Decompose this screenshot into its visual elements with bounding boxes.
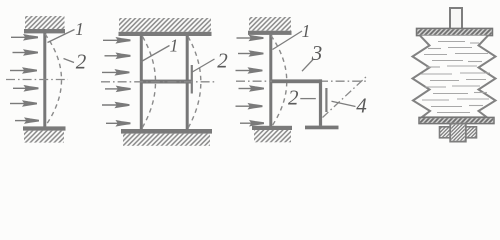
top wall hatching F3 bbox=[249, 17, 291, 31]
leader line to label 2 F1 bbox=[64, 59, 75, 63]
leader line to label 1 F3 bbox=[273, 31, 303, 50]
flow arrow F2 r1 bbox=[103, 38, 130, 43]
flow arrow F1 r6 bbox=[15, 118, 38, 123]
svg-text:3: 3 bbox=[311, 41, 323, 65]
bellows bottom plate bbox=[419, 117, 494, 123]
top wall bar F2 bbox=[119, 32, 212, 36]
right membrane F2 bbox=[186, 36, 189, 129]
svg-text:1: 1 bbox=[302, 21, 311, 41]
bottom wall hatching F1 bbox=[24, 131, 64, 143]
flow arrow F2 r6 bbox=[106, 121, 130, 126]
bellows mounting nut bbox=[440, 127, 477, 138]
membrane F3 bbox=[269, 35, 272, 126]
rod tick F3 bbox=[325, 88, 327, 112]
svg-text:1: 1 bbox=[170, 36, 179, 56]
top wall hatching F1 bbox=[25, 16, 65, 30]
svg-text:1: 1 bbox=[75, 19, 84, 39]
flow arrow F3 r1 bbox=[237, 36, 263, 41]
bottom wall hatching F2 bbox=[123, 134, 210, 146]
svg-text:2: 2 bbox=[76, 50, 87, 74]
top wall hatching F2 bbox=[119, 18, 211, 32]
bottom wall bar F3 bbox=[252, 126, 292, 130]
left membrane F2 bbox=[140, 36, 143, 129]
bellows bottom stem hatch bbox=[451, 125, 465, 141]
svg-text:2: 2 bbox=[217, 49, 228, 73]
bellows top plate bbox=[417, 28, 493, 35]
bottom wall hatching F3 bbox=[254, 130, 291, 142]
flow arrow F2 r3 bbox=[102, 70, 129, 75]
center axis dash-dot F1 bbox=[6, 79, 68, 81]
leader line to label 2 F2 bbox=[192, 59, 214, 72]
flow arrow F1 r3 bbox=[10, 68, 36, 73]
flow arrow F3 r5 bbox=[236, 104, 262, 109]
bottom wall bar F2 bbox=[121, 129, 212, 134]
svg-text:4: 4 bbox=[356, 94, 367, 118]
membrane F1 bbox=[43, 33, 46, 127]
bellows corrugated body bbox=[413, 36, 496, 118]
leader line to label 3 F3 bbox=[302, 60, 313, 72]
flow arrow F3 r3 bbox=[236, 68, 262, 73]
center axis dash-dot F2 bbox=[101, 81, 216, 83]
flow arrow F3 r6 bbox=[240, 121, 263, 126]
flow arrow F1 r1 bbox=[11, 35, 37, 40]
flow arrow F1 r4 bbox=[13, 86, 38, 91]
svg-text:2: 2 bbox=[288, 86, 299, 110]
leader line to label 1 F2 bbox=[141, 46, 170, 63]
flow arrow F1 r2 bbox=[13, 50, 38, 55]
connecting rod F2 bbox=[141, 80, 193, 84]
flow arrow F2 r5 bbox=[102, 103, 129, 108]
deflected left membrane dashed arc F2 bbox=[142, 37, 156, 130]
flow arrow F3 r2 bbox=[238, 51, 263, 56]
flow arrow F3 r4 bbox=[239, 86, 264, 91]
flow arrow F2 r2 bbox=[105, 54, 130, 59]
push rod vertical F3 bbox=[319, 79, 322, 125]
stand base bar F3 bbox=[305, 126, 339, 130]
flow arrow F2 r4 bbox=[105, 87, 130, 92]
push rod horizontal F3 bbox=[272, 79, 322, 83]
bellows bottom stem bbox=[450, 124, 466, 142]
top wall bar F1 bbox=[24, 29, 65, 33]
flow arrow F1 r5 bbox=[10, 101, 36, 106]
bellows top stem bbox=[450, 8, 462, 29]
leader line to label 2 F3 bbox=[300, 98, 316, 100]
bellows fill texture bbox=[421, 42, 490, 113]
bottom wall bar F1 bbox=[23, 126, 66, 130]
deflected right membrane dashed arc F2 bbox=[188, 37, 201, 130]
deflected membrane dashed arc F1 bbox=[45, 34, 62, 127]
deflected lever dash-dot F3 bbox=[323, 76, 368, 118]
leader line to label 4 F3 bbox=[332, 101, 356, 106]
top wall bar F3 bbox=[248, 31, 292, 35]
leader line to label 1 F1 bbox=[48, 30, 75, 43]
deflected membrane dashed arc F3 bbox=[271, 36, 287, 127]
rod end tick F2 bbox=[191, 65, 193, 94]
center axis dash-dot F3 bbox=[236, 80, 368, 82]
